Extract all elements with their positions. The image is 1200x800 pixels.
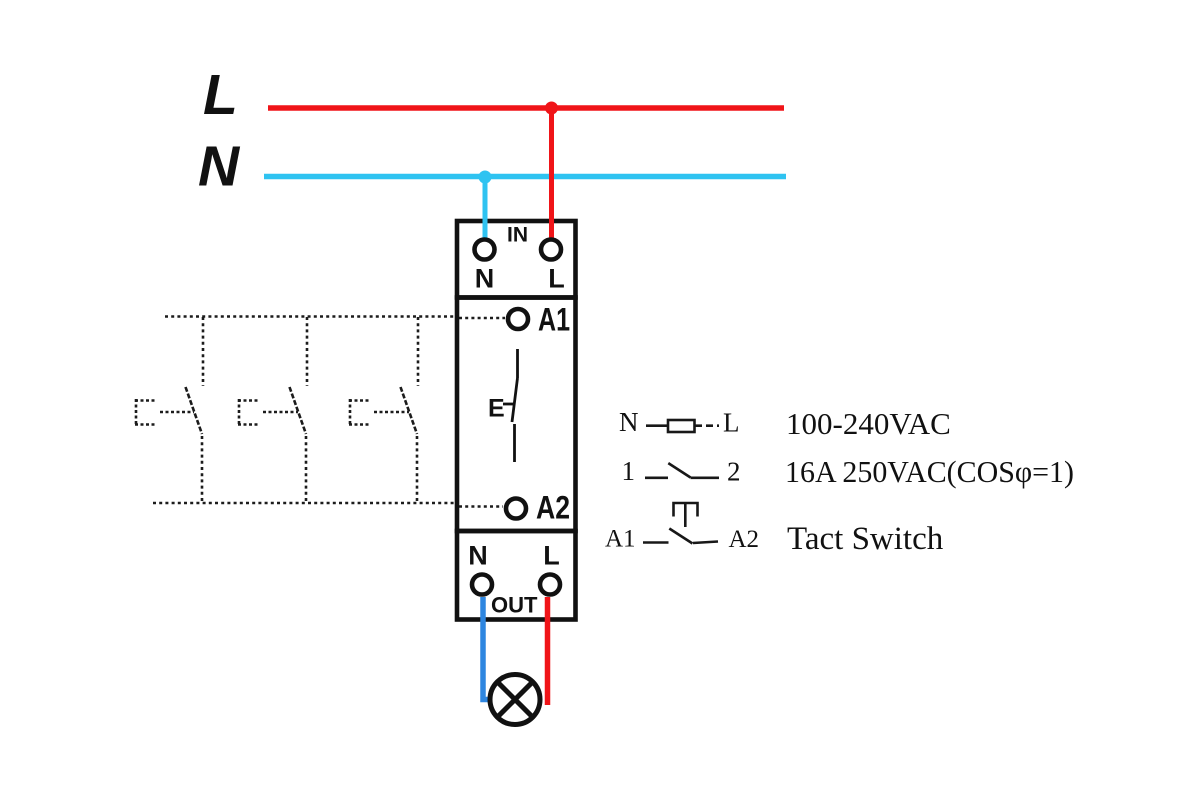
terminal IN L [541, 240, 561, 260]
wire N drop to IN N terminal [483, 177, 488, 240]
S1 actuator E bracket [135, 399, 138, 426]
wire dashed A1 inside module [459, 317, 505, 320]
relay module U1 top section (IN) [457, 221, 576, 298]
svg-text:L: L [203, 63, 238, 127]
lamp DS1 [490, 675, 540, 725]
svg-text:IN: IN [507, 224, 528, 247]
svg-text:2: 2 [727, 457, 741, 487]
svg-text:A2: A2 [729, 526, 760, 553]
svg-text:100-240VAC: 100-240VAC [786, 406, 951, 441]
relay module U1 body backing [455, 219, 578, 623]
tact switch S1 [135, 317, 203, 503]
svg-text:N: N [198, 135, 241, 199]
wire dashed bottom rail to A2 [153, 502, 456, 505]
S3 actuator E bracket [349, 399, 352, 426]
legend row 1: fuse/load symbol [646, 420, 719, 432]
relay module U1 bottom section (OUT) [457, 531, 576, 620]
tact switch S3 [349, 317, 418, 503]
relay module U1 middle section (coil) [457, 298, 576, 532]
svg-text:1: 1 [622, 456, 636, 486]
svg-text:L: L [543, 541, 560, 571]
junction node on L bus [545, 102, 558, 115]
svg-text:L: L [548, 264, 565, 294]
tact switch S2 [238, 317, 307, 503]
legend row 2: relay contact symbol [645, 463, 719, 478]
svg-text:A1: A1 [538, 302, 570, 338]
wire dashed top rail to A1 [165, 315, 456, 318]
svg-text:N: N [475, 264, 495, 294]
svg-text:OUT: OUT [491, 593, 538, 618]
terminal OUT L [540, 575, 560, 595]
svg-text:E: E [488, 395, 505, 423]
svg-text:N: N [468, 541, 488, 571]
terminal OUT N [472, 575, 492, 595]
svg-text:L: L [723, 408, 740, 438]
terminal A2 [506, 499, 526, 519]
junction node on N bus [479, 171, 492, 184]
svg-text:A1: A1 [605, 526, 636, 553]
svg-text:A2: A2 [536, 490, 570, 526]
svg-text:N: N [619, 407, 639, 437]
wire N bus (cyan) [264, 174, 786, 180]
svg-text:16A 250VAC(COSφ=1): 16A 250VAC(COSφ=1) [785, 454, 1074, 489]
legend row 3: tact switch symbol with pushbutton [643, 503, 718, 544]
svg-text:Tact Switch: Tact Switch [787, 521, 944, 557]
wire dashed A2 inside module [459, 505, 503, 508]
terminal A1 [508, 309, 528, 329]
terminal IN N [475, 240, 495, 260]
wire L bus (red) [268, 105, 784, 111]
wire OUT N to lamp (blue) [483, 597, 490, 700]
S2 actuator E bracket [238, 399, 241, 426]
internal coil switch symbol [503, 349, 518, 462]
wire L drop to IN L terminal [549, 108, 554, 240]
wire OUT L to lamp (red) [545, 597, 551, 705]
